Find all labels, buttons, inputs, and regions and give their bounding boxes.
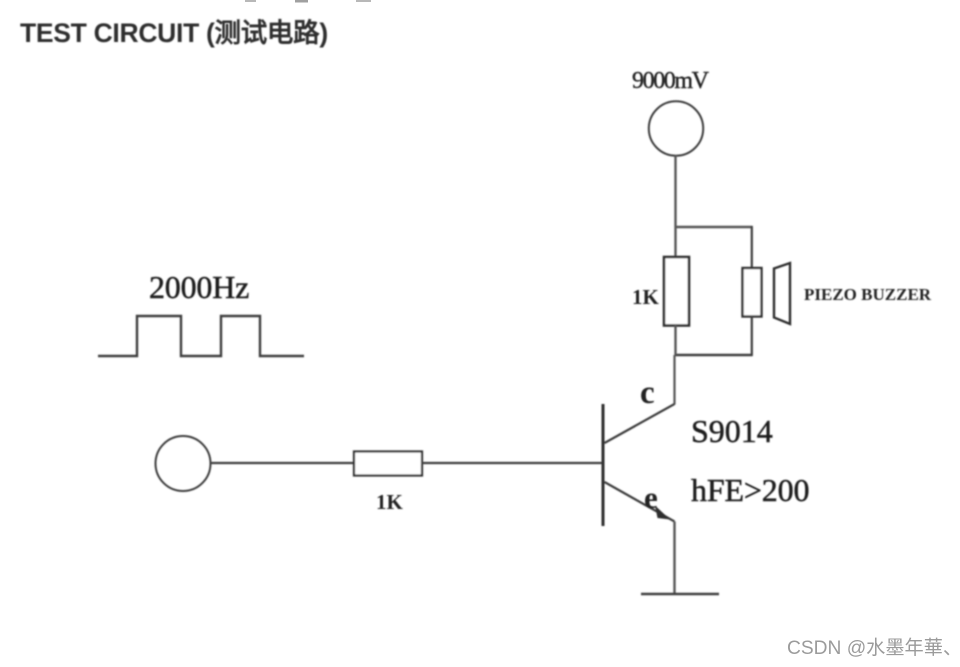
resistor R1 1K (collector load) (664, 257, 689, 326)
resistor R2 1K (base) (354, 452, 422, 476)
transistor Q1 emitter arrow (655, 506, 670, 520)
wire input to resistor R2 (211, 462, 356, 464)
svg-text:hFE>200: hFE>200 (691, 472, 809, 508)
svg-text:TEST CIRCUIT (测试电路): TEST CIRCUIT (测试电路) (20, 18, 328, 48)
wire emitter vertical (673, 522, 675, 595)
svg-text:e: e (644, 480, 658, 515)
svg-text:S9014: S9014 (691, 413, 773, 449)
svg-text:1K: 1K (376, 490, 404, 514)
square wave signal (98, 316, 304, 356)
transistor Q1 base bar (602, 404, 605, 526)
input source circle (156, 436, 211, 491)
svg-text:CSDN @水墨年華、: CSDN @水墨年華、 (787, 637, 960, 659)
supply source circle (649, 101, 703, 155)
wire resistor to bottom rail / collector (674, 325, 676, 355)
wire bottom rail (675, 354, 753, 357)
wire supply to top rail (674, 156, 676, 228)
wire collector vertical (673, 355, 675, 405)
wire rail to resistor R1 (674, 227, 676, 258)
wire buzzer branch bottom (751, 316, 753, 356)
svg-text:PIEZO BUZZER: PIEZO BUZZER (804, 285, 932, 304)
ground (641, 593, 719, 596)
transistor Q1 collector stroke (605, 404, 675, 443)
piezo buzzer cone (774, 263, 790, 324)
svg-text:2000Hz: 2000Hz (149, 269, 249, 305)
top edge fragments (245, 0, 371, 3)
wire buzzer branch top (751, 226, 753, 268)
svg-text:9000mV: 9000mV (632, 68, 710, 94)
transistor Q1 emitter stroke (605, 482, 675, 522)
svg-text:1K: 1K (632, 285, 660, 309)
wire top rail (675, 226, 753, 228)
piezo buzzer element (743, 268, 762, 317)
svg-text:c: c (640, 375, 655, 411)
wire resistor R2 to base (421, 462, 602, 464)
